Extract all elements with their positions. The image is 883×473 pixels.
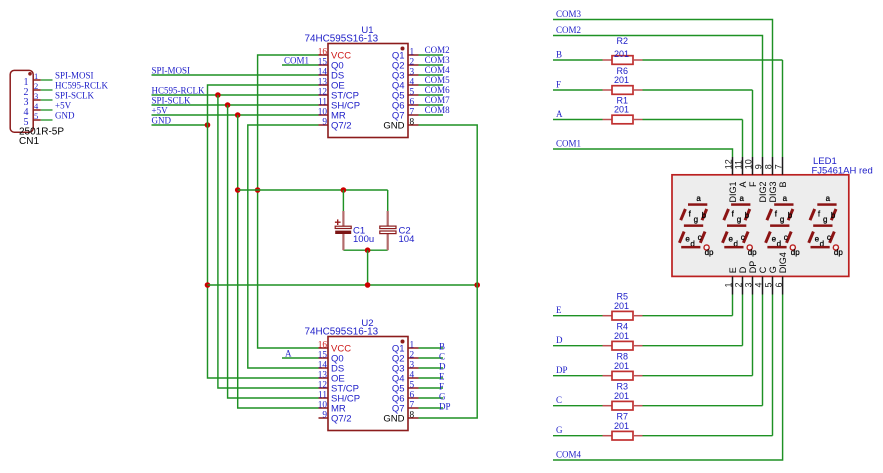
svg-text:2: 2 — [734, 282, 744, 287]
resistor R6 201 — [603, 86, 643, 95]
U1 pin 1 Q1 — [392, 48, 419, 62]
U2 pin 16 VCC — [318, 341, 351, 355]
node COM1 at U1 Q0 — [282, 56, 319, 66]
U2 pin 1 marker — [401, 340, 405, 344]
svg-text:5: 5 — [764, 282, 774, 287]
svg-text:COM3: COM3 — [556, 9, 582, 19]
R6 value 201 — [614, 75, 629, 85]
U1 pin 12 ST/CP — [318, 88, 359, 102]
svg-text:12: 12 — [724, 159, 734, 169]
svg-text:G: G — [556, 425, 563, 435]
wire GND/OE vertical U1-OE to U2-OE — [208, 85, 319, 378]
wire net COM1 to LED1 pin 12 — [553, 139, 733, 158]
U1 refdes — [361, 25, 373, 36]
svg-text:15: 15 — [318, 351, 328, 361]
svg-text:201: 201 — [614, 105, 629, 115]
wire U1 Q4 net COM5 — [419, 75, 451, 85]
R4 refdes — [617, 322, 629, 332]
U2 refdes — [361, 318, 373, 329]
svg-text:c: c — [698, 233, 702, 242]
C1 value 100u — [353, 234, 374, 245]
svg-text:11: 11 — [734, 160, 744, 169]
svg-text:b: b — [745, 211, 750, 220]
svg-text:C: C — [439, 352, 445, 362]
R1 refdes — [617, 96, 629, 106]
U2 pin 3 Q3 — [392, 361, 419, 375]
R3 refdes — [617, 382, 629, 392]
wire U1 Q5 net COM6 — [419, 85, 451, 95]
resistor R2 201 — [603, 56, 643, 65]
wire U2 Q4 net E — [419, 372, 446, 382]
wire U1 Q2 net COM3 — [419, 55, 451, 65]
LED1 digit 4 segments — [809, 194, 844, 257]
svg-text:A: A — [285, 349, 292, 359]
wire SCLK vertical to U2 SH/CP — [228, 105, 319, 398]
wire cap bottom to GND rail — [367, 250, 369, 285]
svg-text:4: 4 — [410, 371, 415, 381]
svg-text:DP: DP — [748, 261, 758, 274]
svg-text:SPI-SCLK: SPI-SCLK — [55, 91, 95, 101]
svg-text:C: C — [556, 395, 562, 405]
R1 value 201 — [614, 105, 629, 115]
U1 pin 11 SH/CP — [318, 98, 360, 112]
svg-text:DP: DP — [439, 402, 451, 412]
svg-text:Q7/2: Q7/2 — [331, 414, 352, 425]
svg-text:COM1: COM1 — [556, 139, 581, 149]
svg-text:G: G — [439, 392, 446, 402]
CN1 pin 1 (SPI-MOSI) — [24, 71, 94, 88]
wire net COM3 to LED1 pin 8 — [553, 9, 773, 157]
svg-text:COM7: COM7 — [425, 95, 451, 105]
wire U2 Q1 net B — [419, 342, 446, 352]
U2 pin 11 SH/CP — [318, 391, 360, 405]
wire C2 top drop — [387, 190, 389, 211]
CN1 pin 4 (+5V) — [24, 101, 72, 118]
svg-text:4: 4 — [754, 282, 764, 287]
svg-text:14: 14 — [318, 68, 328, 78]
svg-text:11: 11 — [318, 98, 327, 108]
svg-text:3: 3 — [410, 361, 415, 371]
svg-text:12: 12 — [318, 88, 328, 98]
svg-text:7: 7 — [410, 401, 415, 411]
svg-text:16: 16 — [318, 341, 328, 351]
svg-text:B: B — [439, 342, 445, 352]
svg-text:GND: GND — [55, 111, 75, 121]
LED1 pin 12 DIG1 (top) — [724, 157, 738, 203]
svg-text:COM2: COM2 — [425, 45, 450, 55]
junction +5V — [235, 112, 241, 118]
svg-text:8: 8 — [410, 118, 415, 128]
wire net COM4 to LED1 pin 6 — [553, 295, 783, 461]
U2 pin 9 Q7/2 — [319, 411, 352, 425]
svg-text:201: 201 — [614, 421, 629, 431]
svg-text:DP: DP — [556, 365, 568, 375]
svg-text:201: 201 — [614, 49, 629, 59]
svg-text:A: A — [738, 182, 748, 188]
svg-text:E: E — [439, 372, 445, 382]
LED1 value FJ5461AH red — [812, 166, 873, 177]
junction +5V rail — [235, 187, 241, 193]
wire HC595-RCLK to U1 ST/CP — [152, 86, 319, 96]
wire SPI-MOSI to U1 DS — [152, 66, 319, 76]
svg-text:12: 12 — [318, 381, 328, 391]
R2 value 201 — [614, 49, 629, 59]
LED1 digit 1 segments — [679, 194, 714, 257]
junction VCC rail — [255, 187, 261, 193]
svg-text:14: 14 — [318, 361, 328, 371]
svg-text:8: 8 — [410, 411, 415, 421]
svg-text:201: 201 — [614, 301, 629, 311]
wire GND rail — [208, 284, 478, 286]
svg-text:201: 201 — [614, 75, 629, 85]
wire capacitor bottom rail — [343, 249, 387, 251]
wire +5V rail to capacitors — [238, 189, 388, 191]
junction cap bottom — [365, 247, 371, 253]
R5 value 201 — [614, 301, 629, 311]
LED1 pin 3 DP (bottom) — [744, 261, 758, 295]
svg-text:+5V: +5V — [152, 106, 169, 116]
svg-text:104: 104 — [399, 234, 415, 245]
R8 refdes — [617, 352, 629, 362]
U1 pin 2 Q2 — [392, 58, 419, 72]
svg-text:DIG2: DIG2 — [758, 182, 768, 203]
svg-text:c: c — [784, 233, 788, 242]
U2 pin 5 Q5 — [392, 381, 419, 395]
svg-text:COM2: COM2 — [556, 25, 581, 35]
svg-text:3: 3 — [410, 68, 415, 78]
connector CN1 2501R-5P — [10, 70, 33, 132]
wire U1 Q3 net COM4 — [419, 65, 451, 75]
svg-text:201: 201 — [614, 391, 629, 401]
CN1 pin 2 (HC595-RCLK) — [24, 81, 109, 98]
svg-text:201: 201 — [614, 361, 629, 371]
wire U2 Q6 net G — [419, 392, 447, 402]
svg-text:G: G — [768, 266, 778, 273]
LED1 pin 9 DIG2 (top) — [754, 157, 768, 203]
svg-text:COM8: COM8 — [425, 105, 451, 115]
wire net COM2 to LED1 pin 9 — [553, 25, 763, 157]
svg-text:COM3: COM3 — [425, 55, 451, 65]
U1 pin 5 Q5 — [392, 88, 419, 102]
svg-text:F: F — [439, 382, 444, 392]
svg-text:dp: dp — [705, 248, 714, 257]
LED1 pin 2 D (bottom) — [734, 266, 748, 294]
svg-text:Q7/2: Q7/2 — [331, 121, 352, 132]
R8 value 201 — [614, 361, 629, 371]
svg-text:dp: dp — [791, 248, 800, 257]
junction GND rail left — [205, 282, 211, 288]
svg-text:8: 8 — [764, 164, 774, 169]
CN1 refdes — [19, 136, 39, 147]
svg-text:GND: GND — [383, 414, 404, 425]
wire net E to LED1 pin 1 — [553, 295, 733, 316]
LED1 pin 7 B (top) — [774, 157, 788, 188]
svg-text:5: 5 — [410, 381, 415, 391]
wire +5V vertical to U2 MR — [238, 115, 319, 408]
svg-text:B: B — [556, 50, 562, 60]
op-amp U2 74HC595S16-13 shift register — [328, 337, 408, 431]
wire net F to LED1 pin 10 — [553, 80, 753, 158]
U1 pin 14 DS — [318, 68, 345, 82]
svg-text:15: 15 — [318, 58, 328, 68]
U2 pin 1 Q1 — [392, 341, 419, 355]
resistor R4 201 — [603, 341, 643, 350]
svg-text:+5V: +5V — [55, 101, 72, 111]
LED1 pin 8 DIG3 (top) — [764, 157, 778, 203]
C1 refdes — [353, 225, 365, 236]
svg-text:F: F — [748, 181, 758, 187]
svg-text:HC595-RCLK: HC595-RCLK — [55, 81, 109, 91]
wire U2 Q3 net D — [419, 362, 447, 372]
svg-text:74HC595S16-13: 74HC595S16-13 — [305, 34, 379, 45]
wire RCLK vertical to U2 ST/CP — [218, 95, 319, 388]
capacitor C1 100u electrolytic — [335, 211, 351, 250]
svg-text:100u: 100u — [353, 234, 374, 245]
svg-text:dp: dp — [834, 248, 843, 257]
wire U1 Q7 net COM8 — [419, 105, 451, 115]
wire net C to LED1 pin 4 — [553, 295, 763, 406]
CN1 pin 5 (GND) — [24, 111, 75, 128]
svg-text:A: A — [556, 109, 563, 119]
svg-text:b: b — [788, 211, 793, 220]
wire U1 GND to U2 GND vertical — [419, 125, 478, 418]
U1 pin 8 GND — [383, 118, 418, 132]
wire SPI-SCLK to U1 SH/CP — [152, 96, 319, 106]
LED1 refdes — [813, 156, 837, 167]
capacitor C2 104 — [380, 211, 396, 250]
svg-text:2: 2 — [410, 58, 415, 68]
junction GND rail right — [474, 282, 480, 288]
R6 refdes — [617, 66, 629, 76]
svg-text:D: D — [556, 335, 563, 345]
svg-text:g: g — [823, 215, 827, 224]
svg-text:b: b — [702, 211, 707, 220]
wire U1 Q6 net COM7 — [419, 95, 451, 105]
svg-text:10: 10 — [318, 401, 328, 411]
LED1 pin 4 C (bottom) — [754, 266, 768, 294]
svg-text:16: 16 — [318, 48, 328, 58]
U1 value 74HC595S16-13 — [305, 34, 379, 45]
U1 pin 1 marker — [401, 47, 405, 51]
svg-text:COM4: COM4 — [556, 450, 582, 460]
svg-text:6: 6 — [774, 282, 784, 287]
U1 pin 10 MR — [318, 108, 346, 122]
resistor R3 201 — [603, 401, 643, 410]
svg-text:g: g — [694, 215, 698, 224]
svg-text:13: 13 — [318, 371, 328, 381]
wire net D to LED1 pin 2 — [553, 295, 743, 346]
R2 refdes — [617, 36, 629, 46]
wire net A to LED1 pin 11 — [553, 109, 743, 157]
svg-text:b: b — [831, 211, 836, 220]
svg-text:7: 7 — [774, 164, 784, 169]
svg-text:74HC595S16-13: 74HC595S16-13 — [305, 327, 379, 338]
svg-text:GND: GND — [383, 121, 404, 132]
display LED1 FJ5461AH 4-digit 7-segment — [672, 175, 849, 277]
R7 refdes — [617, 412, 629, 422]
U1 pin 13 OE — [318, 78, 345, 92]
R3 value 201 — [614, 391, 629, 401]
LED1 digit 3 segments — [766, 194, 801, 257]
wire net G to LED1 pin 5 — [553, 295, 773, 436]
svg-text:F: F — [556, 80, 561, 90]
C2 value 104 — [399, 234, 415, 245]
svg-text:D: D — [439, 362, 446, 372]
junction HC595-RCLK — [215, 92, 221, 98]
svg-text:E: E — [728, 267, 738, 273]
LED1 pin 1 E (bottom) — [724, 267, 738, 294]
node A at U2 Q0 — [282, 349, 319, 359]
svg-text:B: B — [778, 182, 788, 188]
resistor R1 201 — [603, 115, 643, 124]
svg-text:c: c — [827, 233, 831, 242]
svg-text:11: 11 — [318, 391, 327, 401]
svg-text:5: 5 — [410, 88, 415, 98]
wire net B to LED1 pin 7 — [553, 50, 783, 158]
svg-text:COM5: COM5 — [425, 75, 451, 85]
LED1 pin 6 DIG4 (bottom) — [774, 252, 788, 294]
svg-text:SPI-MOSI: SPI-MOSI — [55, 71, 94, 81]
svg-text:DIG4: DIG4 — [778, 252, 788, 273]
U1 pin 4 Q4 — [392, 78, 419, 92]
U2 pin 10 MR — [318, 401, 346, 415]
LED1 pin 10 F (top) — [744, 157, 758, 187]
wire VCC U1 pin16 to U2 pin16 — [258, 55, 319, 348]
LED1 pin 5 G (bottom) — [764, 266, 778, 294]
U2 pin 14 DS — [318, 361, 345, 375]
svg-text:9: 9 — [322, 118, 327, 128]
svg-text:g: g — [737, 215, 741, 224]
R4 value 201 — [614, 331, 629, 341]
svg-text:FJ5461AH red: FJ5461AH red — [812, 166, 873, 177]
U2 pin 7 Q7 — [392, 401, 419, 415]
wire U2 Q7 net DP — [419, 402, 451, 412]
svg-text:9: 9 — [322, 411, 327, 421]
wire U1 Q7/2 to U2 DS daisy chain — [248, 125, 319, 368]
U2 pin 2 Q2 — [392, 351, 419, 365]
svg-text:6: 6 — [410, 391, 415, 401]
op-amp U1 74HC595S16-13 shift register — [328, 44, 408, 138]
wire net DP to LED1 pin 3 — [553, 295, 753, 376]
CN1 pin 3 (SPI-SCLK) — [24, 91, 95, 108]
svg-text:a: a — [826, 194, 831, 203]
svg-text:dp: dp — [748, 248, 757, 257]
U2 pin 12 ST/CP — [318, 381, 359, 395]
svg-text:4: 4 — [410, 78, 415, 88]
LED1 digit 2 segments — [723, 194, 758, 257]
junction C1 top — [341, 187, 347, 193]
U1 pin 6 Q6 — [392, 98, 419, 112]
svg-text:13: 13 — [318, 78, 328, 88]
svg-text:10: 10 — [318, 108, 328, 118]
svg-text:7: 7 — [410, 108, 415, 118]
resistor R8 201 — [603, 371, 643, 380]
U1 pin 15 Q0 — [318, 58, 344, 72]
svg-text:1: 1 — [410, 341, 415, 351]
svg-text:COM1: COM1 — [284, 56, 309, 66]
wire U2 Q2 net C — [419, 352, 446, 362]
U1 pin 16 VCC — [318, 48, 351, 62]
svg-text:HC595-RCLK: HC595-RCLK — [152, 86, 206, 96]
U2 pin 6 Q6 — [392, 391, 419, 405]
svg-text:10: 10 — [744, 159, 754, 169]
svg-text:6: 6 — [410, 98, 415, 108]
svg-text:COM4: COM4 — [425, 65, 451, 75]
svg-text:9: 9 — [754, 164, 764, 169]
svg-text:GND: GND — [152, 116, 172, 126]
wire +5V to U1 MR — [152, 106, 319, 116]
R5 refdes — [617, 292, 629, 302]
svg-text:R2: R2 — [617, 36, 629, 46]
svg-text:D: D — [738, 266, 748, 273]
svg-text:COM6: COM6 — [425, 85, 451, 95]
svg-text:3: 3 — [744, 282, 754, 287]
resistor R7 201 — [603, 431, 643, 440]
svg-text:DIG3: DIG3 — [768, 182, 778, 203]
U2 pin 8 GND — [383, 411, 418, 425]
svg-text:a: a — [696, 194, 701, 203]
junction SPI-SCLK — [225, 102, 231, 108]
U1 pin 7 Q7 — [392, 108, 419, 122]
wire C1 top lead — [342, 190, 344, 211]
junction GND rail center — [365, 282, 371, 288]
svg-text:a: a — [739, 194, 744, 203]
R7 value 201 — [614, 421, 629, 431]
svg-text:2: 2 — [410, 351, 415, 361]
U2 pin 4 Q4 — [392, 371, 419, 385]
CN1 value 2501R-5P — [19, 126, 64, 137]
wire U2 Q5 net F — [419, 382, 445, 392]
U2 value 74HC595S16-13 — [305, 327, 379, 338]
LED1 pin 11 A (top) — [734, 157, 748, 188]
svg-text:g: g — [780, 215, 784, 224]
svg-text:CN1: CN1 — [19, 136, 39, 147]
U1 pin 3 Q3 — [392, 68, 419, 82]
svg-text:DIG1: DIG1 — [728, 182, 738, 203]
wire U1 Q1 net COM2 — [419, 45, 450, 55]
U2 pin 15 Q0 — [318, 351, 344, 365]
svg-text:C: C — [758, 266, 768, 273]
svg-text:c: c — [741, 233, 745, 242]
svg-text:SPI-MOSI: SPI-MOSI — [152, 66, 191, 76]
U2 pin 13 OE — [318, 371, 345, 385]
svg-text:201: 201 — [614, 331, 629, 341]
svg-text:1: 1 — [724, 282, 734, 287]
svg-text:a: a — [783, 194, 788, 203]
U1 pin 9 Q7/2 — [319, 118, 352, 132]
svg-text:SPI-SCLK: SPI-SCLK — [152, 96, 192, 106]
resistor R5 201 — [603, 311, 643, 320]
C2 refdes — [399, 225, 411, 236]
junction GND at OE vertical — [205, 122, 211, 128]
svg-text:E: E — [556, 305, 562, 315]
wire GND label — [152, 116, 208, 126]
svg-text:1: 1 — [410, 48, 415, 58]
